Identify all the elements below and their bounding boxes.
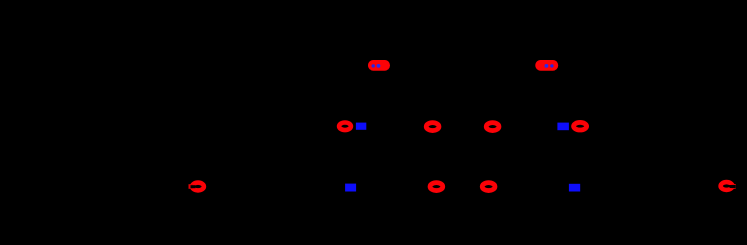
oxygen O, middle row center-right carbonyl — [486, 123, 499, 131]
nitro group NO2 (left), red stadium — [368, 60, 390, 71]
nitrogen N, bottom row right (blue block) — [569, 184, 580, 192]
nitrogen N, bottom row left (blue block) — [345, 184, 356, 192]
oxygen O, bottom row center-right carbonyl — [482, 183, 495, 191]
nitro group NO2 (right), red stadium — [535, 60, 558, 71]
oxygen O, middle row right outer — [574, 122, 587, 130]
oxygen O, bottom row center-left carbonyl — [430, 183, 443, 191]
oxygen O, middle row center-left carbonyl — [426, 123, 439, 131]
hydroxyl OH, bottom far right (H hidden black) — [721, 182, 736, 190]
oxygen O, middle row left outer — [339, 123, 351, 131]
nitrogen N, middle row right (blue block) — [557, 123, 569, 131]
nitrogen N, middle row left (blue block) — [356, 123, 366, 130]
hydroxyl HO, bottom far left (H hidden black) — [189, 183, 204, 191]
